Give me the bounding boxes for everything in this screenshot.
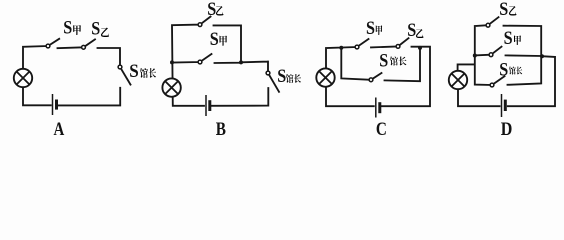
svg-text:S: S — [379, 50, 388, 71]
svg-text:S: S — [207, 0, 216, 20]
svg-text:S: S — [129, 61, 139, 82]
svg-text:S: S — [499, 60, 508, 81]
svg-text:S: S — [91, 19, 100, 40]
svg-text:B: B — [216, 119, 226, 136]
svg-text:S: S — [504, 28, 513, 49]
svg-text:S: S — [277, 66, 286, 87]
svg-text:D: D — [501, 119, 513, 136]
svg-text:S: S — [407, 20, 416, 41]
svg-text:S: S — [499, 0, 508, 20]
svg-text:S: S — [63, 18, 72, 39]
svg-text:S: S — [366, 18, 375, 39]
svg-text:C: C — [376, 119, 387, 136]
svg-text:S: S — [210, 29, 219, 50]
svg-text:A: A — [54, 119, 65, 136]
